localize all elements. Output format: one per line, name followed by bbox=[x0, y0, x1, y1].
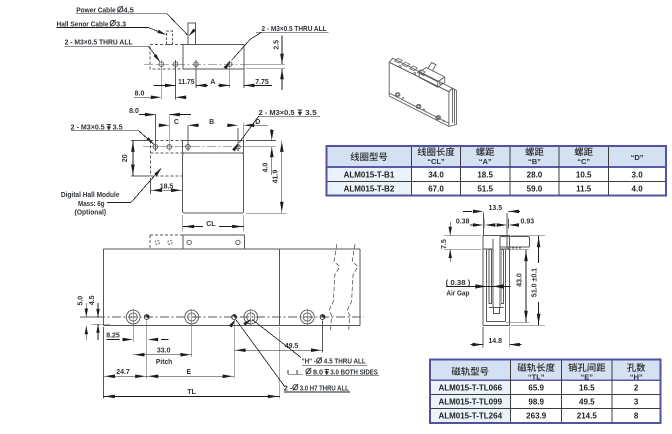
svg-text:4.0: 4.0 bbox=[262, 163, 269, 173]
dimension 0.38 (top) bbox=[470, 224, 473, 226]
svg-text:( 0.38 ): ( 0.38 ) bbox=[446, 280, 471, 287]
svg-text:4.5 THRU ALL: 4.5 THRU ALL bbox=[324, 359, 367, 366]
svg-text:7.5: 7.5 bbox=[441, 239, 448, 249]
dimension 20 bbox=[131, 139, 150, 141]
svg-text:14.8: 14.8 bbox=[488, 338, 502, 345]
svg-text:8: 8 bbox=[634, 412, 639, 421]
air gap pointer bbox=[446, 285, 511, 287]
svg-text:(Optional): (Optional) bbox=[75, 210, 107, 217]
header 线圈型号 bbox=[351, 152, 360, 161]
svg-text:51.0 ±0.1: 51.0 ±0.1 bbox=[532, 268, 539, 297]
front view: hall module dashed box bbox=[150, 139, 182, 141]
svg-text:263.9: 263.9 bbox=[526, 412, 547, 421]
svg-text:65.9: 65.9 bbox=[528, 384, 544, 393]
svg-text:2: 2 bbox=[634, 384, 639, 393]
svg-text:"H" -: "H" - bbox=[302, 359, 317, 366]
svg-text:13.5: 13.5 bbox=[488, 205, 502, 212]
power cable bbox=[188, 23, 195, 45]
svg-text:10.5: 10.5 bbox=[576, 171, 592, 180]
svg-text:33.0: 33.0 bbox=[157, 348, 171, 355]
dimension 8.0 (front view) bbox=[154, 114, 156, 143]
extension lines below track bbox=[102, 327, 104, 399]
svg-text:“E”: “E” bbox=[581, 373, 594, 382]
dimension 7.5 bbox=[444, 235, 481, 237]
svg-text:67.0: 67.0 bbox=[428, 185, 444, 194]
svg-text:“TL”: “TL” bbox=[528, 373, 545, 382]
plate holes bbox=[155, 240, 159, 244]
svg-text:2.5: 2.5 bbox=[274, 40, 281, 50]
svg-text:18.5: 18.5 bbox=[477, 171, 493, 180]
header 螺距 C bbox=[575, 147, 584, 156]
front view centerline bbox=[143, 146, 252, 148]
top view mounting holes M3 bbox=[159, 62, 164, 67]
leader to pin hole bbox=[236, 320, 285, 387]
dimension 51.0 +-0.1 bbox=[511, 235, 545, 237]
label: d8.0 depth 3.0 BOTH SIDES bbox=[287, 370, 289, 374]
dimension CL (between views) bbox=[182, 215, 184, 232]
svg-text:4.0: 4.0 bbox=[632, 185, 644, 194]
dimension 49.5 bbox=[234, 349, 322, 351]
svg-text:“C”: “C” bbox=[577, 157, 590, 166]
hall sensor cable dashed bbox=[166, 31, 172, 45]
svg-text:214.5: 214.5 bbox=[577, 412, 598, 421]
header 销孔间距 E bbox=[568, 363, 577, 372]
dimension 13.5 bbox=[482, 213, 484, 236]
svg-text:“CL”: “CL” bbox=[427, 157, 445, 166]
track centerline bbox=[96, 316, 364, 318]
section: track outer bbox=[483, 236, 509, 326]
svg-text:4.5: 4.5 bbox=[89, 295, 96, 305]
svg-text:24.7: 24.7 bbox=[116, 369, 130, 376]
front view holes bbox=[153, 145, 158, 150]
svg-text:8.0: 8.0 bbox=[313, 369, 323, 376]
svg-text:49.5: 49.5 bbox=[579, 398, 595, 407]
header 孔数 H bbox=[627, 363, 636, 372]
svg-text:A: A bbox=[210, 79, 215, 86]
dimension 18.5 bbox=[149, 178, 151, 194]
svg-text:2 - M3×0.5 THRU ALL: 2 - M3×0.5 THRU ALL bbox=[65, 40, 134, 47]
section: coil flange bbox=[500, 236, 530, 247]
top view centerline bbox=[144, 63, 250, 65]
top view: coil body bbox=[183, 45, 244, 69]
svg-text:B: B bbox=[209, 119, 214, 126]
svg-text:20: 20 bbox=[122, 154, 129, 162]
dimension 33.0 Pitch bbox=[133, 354, 192, 356]
svg-text:Pitch: Pitch bbox=[156, 359, 172, 366]
svg-text:Air Gap: Air Gap bbox=[446, 291, 469, 298]
dimension 0.93 (top) bbox=[508, 219, 510, 229]
header 磁轨长度 TL bbox=[518, 363, 527, 372]
dimension 8.0 (top view) bbox=[134, 96, 161, 98]
svg-text:59.0: 59.0 bbox=[527, 185, 543, 194]
dimension 14.8 bbox=[482, 327, 484, 348]
side view: coil plate on track bbox=[183, 235, 244, 249]
dimension TL bbox=[103, 395, 279, 397]
track mounting holes (counterbored) bbox=[126, 310, 140, 324]
svg-text:28.0: 28.0 bbox=[527, 171, 543, 180]
section: coil blade bbox=[492, 239, 494, 307]
svg-text:18.5: 18.5 bbox=[160, 184, 174, 191]
section: magnets bbox=[489, 250, 491, 304]
svg-text:3.0 BOTH SIDES: 3.0 BOTH SIDES bbox=[330, 369, 378, 376]
svg-text:Digital Hall Module: Digital Hall Module bbox=[61, 192, 120, 199]
svg-text:16.5: 16.5 bbox=[579, 384, 595, 393]
svg-text:11.5: 11.5 bbox=[576, 185, 592, 194]
svg-text:“B”: “B” bbox=[528, 157, 541, 166]
dimension C / B / D line bbox=[187, 125, 189, 143]
svg-text:8.0: 8.0 bbox=[129, 108, 139, 115]
table: coil models bbox=[326, 146, 666, 167]
svg-text:ALM015-T-TL066: ALM015-T-TL066 bbox=[438, 384, 502, 393]
dimension 43.0 bbox=[508, 249, 529, 251]
svg-text:CL: CL bbox=[206, 221, 216, 228]
svg-text:3.0 H7 THRU ALL: 3.0 H7 THRU ALL bbox=[300, 385, 350, 392]
top view: hall module dashed box bbox=[150, 45, 183, 69]
svg-text:8.25: 8.25 bbox=[106, 333, 120, 340]
svg-text:ALM015-T-TL099: ALM015-T-TL099 bbox=[438, 398, 502, 407]
svg-text:51.5: 51.5 bbox=[477, 185, 493, 194]
dimension 2.5 (top view right) bbox=[246, 63, 285, 65]
svg-text:0.93: 0.93 bbox=[520, 219, 534, 226]
svg-text:ALM015-T-TL264: ALM015-T-TL264 bbox=[438, 412, 502, 421]
dimension 4.0 bbox=[246, 139, 276, 141]
dimension 24.7 and E bbox=[103, 375, 234, 377]
svg-text:Mass: 6g: Mass: 6g bbox=[78, 201, 105, 208]
svg-text:C: C bbox=[174, 119, 179, 126]
leader to hole3 bbox=[252, 320, 301, 358]
svg-text:8.0: 8.0 bbox=[135, 90, 145, 97]
isometric view of motor bbox=[389, 62, 449, 126]
header 螺距 B bbox=[525, 147, 534, 156]
svg-text:“D”: “D” bbox=[631, 153, 644, 162]
svg-text:ALM015-T-B1: ALM015-T-B1 bbox=[344, 171, 395, 180]
svg-text:41.9: 41.9 bbox=[272, 170, 279, 184]
front view: coil body bbox=[183, 153, 244, 213]
svg-text:ALM015-T-B2: ALM015-T-B2 bbox=[344, 185, 395, 194]
svg-text:7.75: 7.75 bbox=[255, 79, 269, 86]
svg-text:3.0: 3.0 bbox=[632, 171, 644, 180]
front view: mounting plate strip bbox=[183, 140, 244, 153]
dimension 41.9 bbox=[246, 212, 286, 214]
svg-text:98.9: 98.9 bbox=[528, 398, 544, 407]
svg-text:“H”: “H” bbox=[630, 373, 643, 382]
svg-text:E: E bbox=[186, 369, 191, 376]
table: track models bbox=[430, 360, 661, 381]
svg-text:2 -: 2 - bbox=[284, 385, 293, 392]
svg-text:34.0: 34.0 bbox=[428, 171, 444, 180]
svg-text:TL: TL bbox=[187, 389, 196, 396]
track break zigzags bbox=[329, 244, 340, 331]
header 线圈长度 CL bbox=[418, 147, 427, 156]
svg-text:43.0: 43.0 bbox=[517, 273, 524, 287]
dimension 8.25 bbox=[107, 339, 120, 341]
track body bbox=[103, 248, 359, 250]
broken track piece right edge bbox=[359, 249, 361, 325]
svg-text:5.0: 5.0 bbox=[77, 296, 84, 306]
svg-text:11.75: 11.75 bbox=[178, 79, 194, 86]
svg-text:0.38: 0.38 bbox=[456, 219, 470, 226]
svg-text:3: 3 bbox=[634, 398, 639, 407]
dowel pin holes bbox=[144, 315, 149, 320]
dims 5.0 and 4.5 (left) bbox=[80, 316, 104, 318]
top view dimension extension lines bbox=[160, 67, 162, 100]
header 磁轨型号 bbox=[452, 367, 461, 376]
header 螺距 A bbox=[476, 147, 485, 156]
dimension 11.75 / A / 7.75 line bbox=[154, 84, 176, 86]
svg-text:“A”: “A” bbox=[479, 157, 492, 166]
